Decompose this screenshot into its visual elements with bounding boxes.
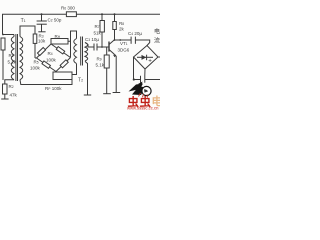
wire bottom output line left [134, 79, 141, 81]
junction dot bottom output [133, 78, 135, 80]
wire C5 to right edge [145, 79, 160, 81]
wire rectifier bottom corner down [144, 69, 146, 76]
svg-text:100k: 100k [46, 57, 57, 62]
resistor R6 [66, 12, 76, 17]
emitter arrow [113, 55, 116, 58]
wire T1 secondary top over to R3 [20, 26, 35, 37]
resistor R2 [3, 84, 8, 94]
svg-text:R5: R5 [34, 59, 39, 64]
bridge arm resistor R4 (left-top) [37, 44, 52, 58]
junction dot C2 top [41, 13, 43, 15]
capacitor C3 [93, 44, 95, 51]
wire R2 to ground [4, 94, 6, 99]
wire C4 to rectifier top [135, 40, 149, 46]
wire T2 secondary bottom to ground [85, 61, 88, 95]
svg-text:47k: 47k [10, 93, 18, 98]
transistor VT1 collector [109, 40, 115, 45]
wire bridge right node up to T2 primary top [71, 31, 77, 41]
ground under R9 [103, 93, 111, 95]
capacitor C5 [140, 76, 142, 83]
svg-text:RP 100k: RP 100k [45, 86, 62, 91]
resistor R8 [113, 22, 117, 30]
junction dot left node T1 [2, 34, 4, 36]
watermark text chong chong [128, 94, 163, 109]
svg-text:R4: R4 [48, 51, 53, 56]
potentiometer RP box [53, 72, 72, 80]
svg-text:+: + [148, 58, 152, 65]
svg-text:2k: 2k [119, 27, 125, 32]
svg-text:电: 电 [154, 28, 160, 36]
svg-text:5.1k: 5.1k [8, 60, 17, 65]
wire emitter to ground [115, 56, 117, 93]
transformer T2 core [80, 37, 82, 66]
svg-text:R9: R9 [97, 57, 102, 62]
resistor R3 [33, 34, 37, 43]
transistor VT1 base bar [108, 42, 110, 52]
svg-text:R2: R2 [9, 84, 14, 89]
svg-text:R7: R7 [95, 24, 100, 29]
svg-text:5.1k: 5.1k [96, 63, 105, 68]
svg-text:C2 50p: C2 50p [48, 18, 62, 23]
svg-text:R8: R8 [119, 21, 124, 26]
wire rectifier right corner to edge [158, 56, 160, 58]
bridge arm resistor (bottom-right) [56, 58, 71, 72]
wire T1 primary bottom to R2 [5, 80, 14, 84]
wire T2 secondary top to C3 [85, 43, 94, 48]
resistor R1 [1, 38, 5, 50]
bridge arm resistor (top-right) [51, 44, 71, 58]
svg-text:100k: 100k [30, 65, 41, 70]
svg-text:流: 流 [154, 37, 160, 45]
transformer T1 secondary winding [20, 37, 23, 80]
wire collector node to C4 [115, 39, 132, 41]
wire T1 secondary bottom to return [20, 80, 72, 85]
svg-text:C3 10µ: C3 10µ [85, 37, 99, 42]
junction dot R8 top [114, 13, 116, 15]
resistor R9 [104, 55, 109, 68]
transformer T2 secondary winding [85, 43, 88, 61]
thermistor RH box [51, 39, 68, 45]
wire R7 bottom to base node [101, 32, 103, 47]
wire RH right lead and bridge right node [68, 41, 71, 57]
wire R1 bottom [2, 50, 4, 80]
transformer T1 primary winding [11, 37, 14, 80]
watermark bug logo [129, 82, 152, 98]
svg-text:R1: R1 [9, 53, 14, 58]
transformer T2 primary winding [74, 39, 77, 64]
capacitor C2 [41, 14, 43, 20]
svg-text:R6 300: R6 300 [61, 6, 75, 11]
rectifier internal diode [137, 56, 153, 58]
junction dot collector node [114, 39, 116, 41]
wire top supply rail left [3, 14, 67, 34]
capacitor C4 [130, 37, 132, 44]
svg-text:RH: RH [55, 34, 61, 39]
wire R3 bottom to bridge left node [34, 43, 36, 58]
svg-text:51k: 51k [94, 31, 102, 36]
wire R9 to ground [106, 68, 108, 94]
wire R8 bottom to collector node [114, 30, 116, 41]
ground under T2 [84, 94, 91, 96]
svg-text:www.ssssc.cc.cn: www.ssssc.cc.cn [127, 106, 159, 111]
resistor R7 [100, 21, 104, 33]
wire bridge bottom to RP [55, 71, 57, 74]
wire left node to T1 primary top [3, 34, 15, 36]
bridge arm resistor R5 (left-bottom) [37, 58, 57, 72]
junction dot R7 base node [101, 46, 103, 48]
junction dot R7 top [101, 13, 103, 15]
wire RP bottom right to return [71, 80, 73, 85]
wire T2 primary bottom to RP right edge [72, 64, 77, 75]
wire rectifier left corner down [133, 57, 135, 80]
svg-text:3DG6: 3DG6 [118, 48, 130, 53]
svg-text:VT1: VT1 [120, 41, 128, 46]
svg-text:C4 20µ: C4 20µ [128, 31, 142, 36]
transistor VT1 emitter [109, 50, 116, 56]
junction dot on collector wire [119, 39, 121, 41]
bridge rectifier diamond [134, 46, 159, 70]
wire C3 to base [97, 46, 109, 48]
ground under R2 [1, 98, 8, 100]
ground under emitter [113, 92, 121, 94]
wire top rail right of R6 [76, 13, 160, 15]
svg-text:10k: 10k [38, 39, 46, 44]
transformer T1 core [15, 34, 17, 81]
